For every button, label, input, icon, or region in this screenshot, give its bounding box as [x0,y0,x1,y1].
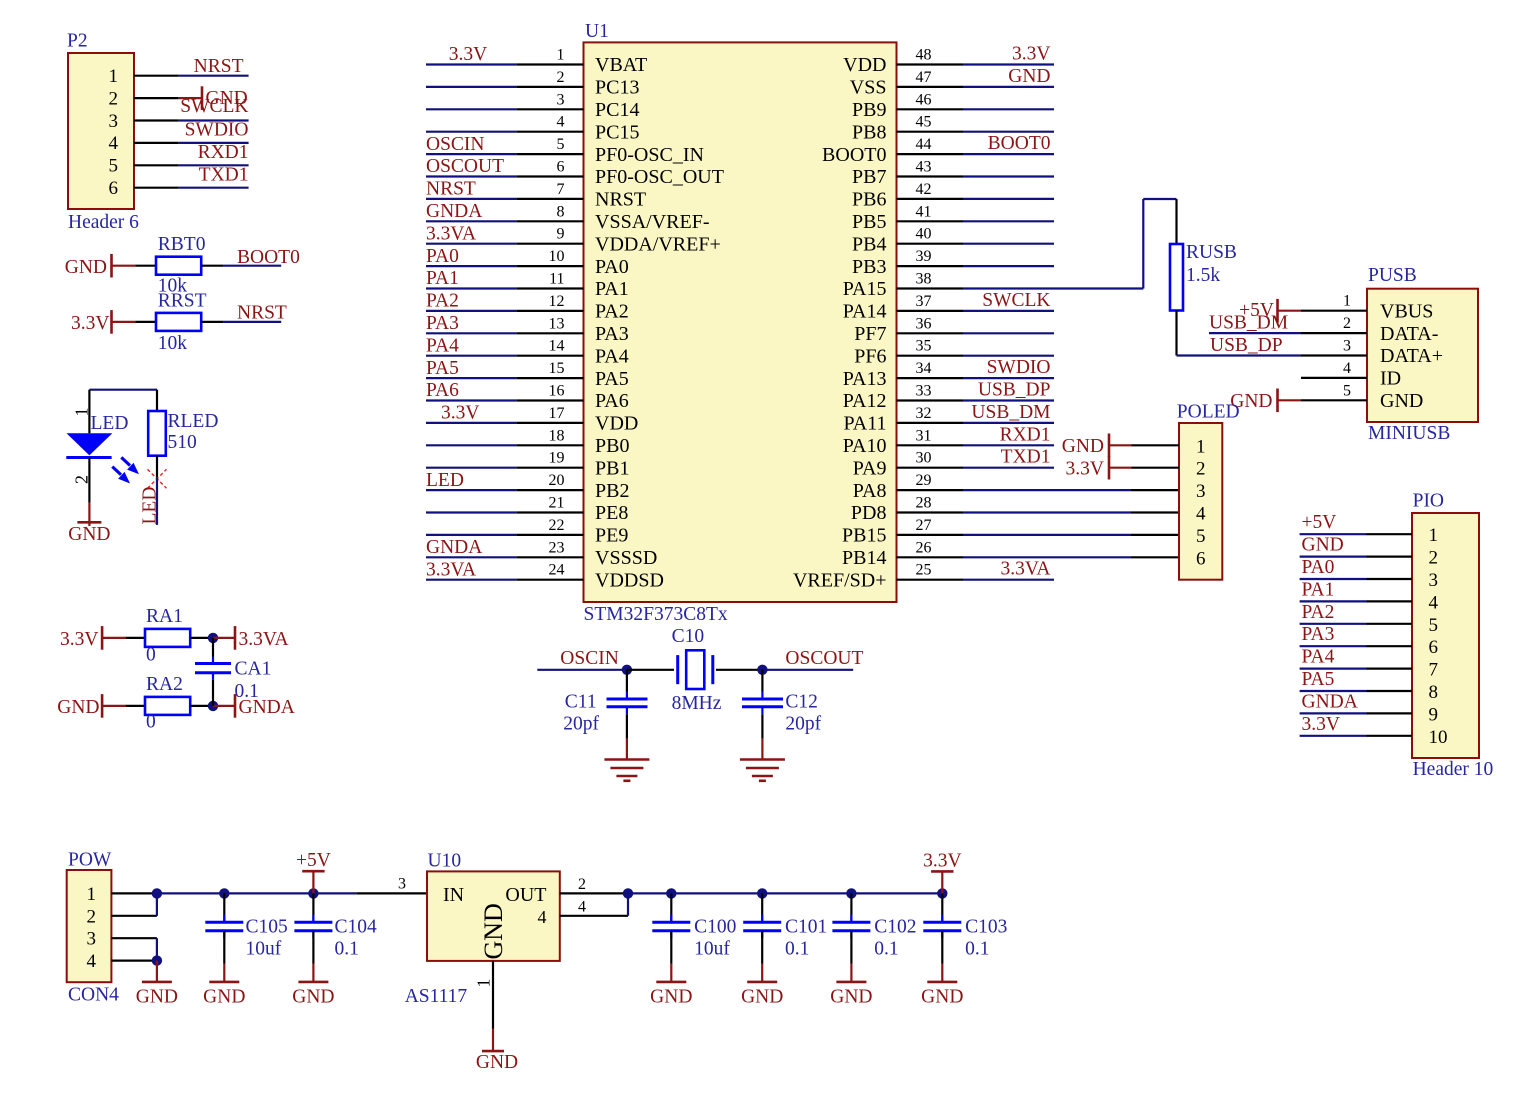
svg-text:PB6: PB6 [852,189,886,211]
svg-text:1.5k: 1.5k [1186,265,1220,286]
wire U1 pin 28 [963,511,1131,513]
svg-text:VBUS: VBUS [1380,300,1433,322]
svg-text:26: 26 [916,539,932,556]
wire U1 pin 2 [426,86,516,88]
wire U1 pin 1 [426,63,516,65]
svg-text:16: 16 [549,383,565,400]
svg-text:37: 37 [916,293,932,310]
svg-text:TXD1: TXD1 [1001,447,1051,468]
wire U1 pin 11 [426,287,516,289]
wire 3.3V rail [628,892,942,894]
svg-text:2: 2 [109,88,119,109]
junction POW +5V rail [152,888,162,898]
svg-text:24: 24 [549,562,565,579]
svg-text:CON4: CON4 [68,985,119,1006]
svg-text:PB5: PB5 [852,211,886,233]
connector P2 (Header 6) [68,53,134,209]
wire PIO pin 9 [1300,712,1367,714]
capacitor C105 10uf [223,893,225,922]
svg-text:PC13: PC13 [595,77,639,99]
wire U1 pin 43 [963,175,1054,177]
svg-text:C11: C11 [565,692,597,713]
ground symbol (C11) [626,739,628,760]
svg-text:PB8: PB8 [852,121,886,143]
svg-text:PD8: PD8 [851,502,887,524]
svg-text:39: 39 [916,248,932,265]
svg-text:PA2: PA2 [595,301,629,323]
svg-text:GND: GND [68,524,110,545]
svg-text:C102: C102 [874,917,916,938]
wire U1 pin 44 [963,153,1054,155]
svg-text:PA14: PA14 [843,301,887,323]
svg-text:PA4: PA4 [595,345,629,367]
svg-text:PA11: PA11 [844,413,887,435]
svg-text:30: 30 [916,450,932,467]
svg-text:VDDSD: VDDSD [595,569,664,591]
wire U1 pin 21 [426,511,516,513]
svg-text:AS1117: AS1117 [405,986,468,1007]
svg-text:ID: ID [1380,368,1401,390]
wire U1 pin 31 [963,444,1054,446]
svg-text:PB3: PB3 [852,256,886,278]
svg-text:3.3V: 3.3V [441,403,479,424]
svg-text:3.3V: 3.3V [923,850,961,871]
svg-text:GNDA: GNDA [1302,691,1358,712]
svg-text:USB_DM: USB_DM [971,402,1050,423]
wire U1 pin 3 [426,108,516,110]
power port GND (C105) [223,964,225,982]
svg-text:1: 1 [1343,293,1351,310]
svg-text:28: 28 [916,495,932,512]
svg-text:0.1: 0.1 [235,681,259,702]
svg-text:PF6: PF6 [854,345,886,367]
power port 3.3V (rail) [941,871,943,893]
power port GND (C104) [312,964,314,982]
crystal C10 8MHz [627,669,674,671]
wire U1 pin 46 [963,108,1054,110]
svg-text:10k: 10k [158,333,188,354]
svg-text:3.3VA: 3.3VA [1000,559,1050,580]
svg-text:10: 10 [549,248,565,265]
wire +5V rail [157,892,356,894]
resistor RUSB 1.5k [1175,199,1177,244]
svg-text:RA2: RA2 [146,674,183,695]
connector PUSB (MINIUSB) [1367,289,1478,422]
svg-text:3: 3 [1343,338,1351,355]
wire U1 pin 9 [426,243,516,245]
wire U1 pin 30 [963,467,1054,469]
svg-text:BOOT0: BOOT0 [988,133,1051,154]
power port 3.3VA [213,637,235,639]
resistor RA1 0 [126,637,145,639]
svg-text:Header 10: Header 10 [1413,759,1494,780]
resistor RRST 10k [135,321,156,323]
svg-text:3: 3 [1196,481,1206,502]
svg-text:6: 6 [1429,637,1439,658]
svg-text:SWCLK: SWCLK [982,290,1050,311]
svg-text:0: 0 [146,645,156,666]
svg-text:Header 6: Header 6 [68,212,139,233]
svg-text:PA9: PA9 [853,457,887,479]
svg-text:GND: GND [65,257,107,278]
svg-text:OSCIN: OSCIN [560,648,619,669]
svg-text:DATA-: DATA- [1380,323,1438,345]
svg-text:2: 2 [557,69,565,86]
svg-text:PA1: PA1 [1302,579,1335,600]
wire LED net [156,478,158,525]
resistor RBT0 10k [135,265,156,267]
svg-text:PA0: PA0 [426,246,459,267]
power port GND (C101) [761,964,763,982]
svg-text:46: 46 [916,91,932,108]
svg-text:4: 4 [1343,360,1351,377]
wire U1 pin 32 [963,422,1054,424]
svg-text:32: 32 [916,405,932,422]
svg-text:4: 4 [87,951,97,972]
wire U1 pin 39 [963,265,1054,267]
ground symbol (C12) [761,739,763,760]
junction POW GND [152,955,162,965]
svg-text:3: 3 [398,875,406,892]
svg-text:14: 14 [549,338,565,355]
svg-text:35: 35 [916,338,932,355]
svg-text:5: 5 [109,156,119,177]
capacitor C104 0.1 [312,893,314,922]
svg-text:GND: GND [206,88,248,109]
svg-text:USB_DP: USB_DP [1210,335,1283,356]
svg-text:3.3V: 3.3V [1302,714,1340,735]
wire POW pin 3 [111,937,156,939]
wire P2 pin 5 [134,164,179,166]
svg-text:2: 2 [1196,459,1206,480]
svg-text:17: 17 [549,405,565,422]
wire PIO pin 3 [1300,578,1367,580]
svg-text:PE8: PE8 [595,502,628,524]
wire U1 pin 26 [963,556,1131,558]
wire U1 pin 5 [426,153,516,155]
power port GND (POW) [156,961,158,982]
wire U1 pin 7 [426,198,516,200]
svg-text:2: 2 [87,906,97,927]
svg-text:48: 48 [916,47,932,64]
svg-text:9: 9 [557,226,565,243]
svg-text:GND: GND [830,986,872,1007]
svg-text:PC14: PC14 [595,99,639,121]
svg-text:11: 11 [549,271,564,288]
svg-text:0.1: 0.1 [335,939,359,960]
wire U1 pin 6 [426,175,516,177]
svg-text:38: 38 [916,271,932,288]
wire U1 pin 4 [426,131,516,133]
svg-text:3.3VA: 3.3VA [239,629,289,650]
svg-text:C103: C103 [965,917,1007,938]
svg-text:PA8: PA8 [853,480,887,502]
wire U1 pin 45 [963,131,1054,133]
svg-text:1: 1 [72,408,92,417]
svg-text:NRST: NRST [426,179,476,200]
svg-text:NRST: NRST [237,302,287,323]
resistor RLED 510 [156,390,158,411]
svg-text:NRST: NRST [595,189,646,211]
svg-text:6: 6 [1196,548,1206,569]
wire PIO pin 4 [1300,600,1367,602]
wire LED top [89,389,157,391]
wire U1 pin 42 [963,198,1054,200]
wire U1 pin 33 [963,399,1054,401]
svg-text:2: 2 [1429,548,1439,569]
svg-text:PB1: PB1 [595,457,629,479]
svg-text:USB_DP: USB_DP [978,380,1051,401]
wire U1 pin 22 [426,534,516,536]
svg-text:PB14: PB14 [842,547,886,569]
svg-text:43: 43 [916,159,932,176]
svg-text:1: 1 [1429,525,1439,546]
wire P2 pin 4 [134,142,179,144]
svg-text:GND: GND [479,903,508,959]
wire U1 pin 41 [963,220,1054,222]
svg-text:PA4: PA4 [1302,647,1335,668]
svg-text:PE9: PE9 [595,525,628,547]
wire U1 pin 15 [426,377,516,379]
svg-text:2: 2 [578,876,586,893]
svg-text:GND: GND [1008,66,1050,87]
wire U1 pin 14 [426,355,516,357]
svg-text:U1: U1 [585,21,609,42]
wire PIO pin 2 [1300,555,1367,557]
wire U1 pin 48 [963,63,1054,65]
wire U1 pin 17 [426,422,516,424]
svg-text:4: 4 [578,898,586,915]
svg-text:BOOT0: BOOT0 [237,247,300,268]
capacitor CA1 0.1 [212,638,214,657]
svg-text:PA5: PA5 [595,368,629,390]
svg-text:PA3: PA3 [595,323,629,345]
svg-text:LED: LED [140,487,161,525]
capacitor C100 10uf [670,893,672,922]
capacitor C102 0.1 [850,893,852,922]
svg-text:0: 0 [146,712,156,733]
capacitor C11 20pf [626,670,628,692]
power port GND (U10) [492,1029,494,1052]
svg-text:15: 15 [549,360,565,377]
junction node 3.3VA [208,633,218,643]
svg-text:PA13: PA13 [843,368,887,390]
svg-text:5: 5 [1429,615,1439,636]
wire POW pin 2 [111,915,156,917]
svg-text:OSCIN: OSCIN [426,134,485,155]
svg-text:VSSA/VREF-: VSSA/VREF- [595,211,709,233]
wire POW pin 1 [111,892,156,894]
svg-text:PB7: PB7 [852,166,886,188]
svg-text:VBAT: VBAT [595,54,647,76]
junction U10 output [623,888,633,898]
svg-text:510: 510 [168,432,197,453]
svg-text:PA12: PA12 [843,390,887,412]
svg-text:OSCOUT: OSCOUT [785,648,863,669]
svg-text:1: 1 [474,979,494,988]
svg-text:VSS: VSS [850,77,887,99]
svg-text:10uf: 10uf [694,939,730,960]
svg-text:GND: GND [741,986,783,1007]
svg-text:NRST: NRST [194,56,244,77]
wire OSCIN [537,669,627,671]
svg-text:3: 3 [109,111,119,132]
wire U1 pin 25 [963,579,1054,581]
svg-text:GND: GND [921,986,963,1007]
svg-text:3.3V: 3.3V [1066,458,1104,479]
junction OSCOUT node [757,665,767,675]
svg-text:BOOT0: BOOT0 [822,144,886,166]
connector POW (CON4) [67,870,112,982]
svg-text:PA10: PA10 [843,435,887,457]
svg-text:VDD: VDD [843,54,886,76]
svg-text:C100: C100 [694,917,736,938]
svg-text:31: 31 [916,427,932,444]
svg-text:C104: C104 [335,917,378,938]
svg-text:3.3V: 3.3V [1012,44,1050,65]
wire U1 pin 19 [426,467,516,469]
svg-text:GNDA: GNDA [426,537,482,558]
svg-text:PA0: PA0 [1302,557,1335,578]
svg-text:4: 4 [109,133,119,154]
svg-text:POW: POW [68,850,112,871]
svg-text:PA2: PA2 [1302,602,1335,623]
regulator U10 AS1117 [427,871,560,961]
wire U1 pin 24 [426,579,516,581]
wire USB_DM [1209,332,1301,334]
svg-text:GND: GND [203,986,245,1007]
svg-text:1: 1 [557,47,565,64]
svg-text:PC15: PC15 [595,121,639,143]
junction OSCIN node [622,665,632,675]
svg-text:C105: C105 [246,917,288,938]
power port GND (C100) [670,964,672,982]
wire PA15 to RUSB [963,287,1143,289]
svg-text:GND: GND [292,986,334,1007]
junction C102 [846,888,856,898]
wire U1 pin 16 [426,399,516,401]
svg-text:PA5: PA5 [1302,669,1335,690]
wire U1 pin 37 [963,310,1054,312]
svg-text:3.3V: 3.3V [71,313,109,334]
wire U1 pin 47 [963,86,1054,88]
no-ERC marker [148,469,167,488]
svg-text:3: 3 [1429,570,1439,591]
resistor RA2 0 [126,705,145,707]
svg-text:SWDIO: SWDIO [185,119,249,140]
svg-text:8: 8 [557,203,565,220]
power port GND (P2 pin 2) [179,97,202,99]
svg-text:C10: C10 [672,626,705,647]
svg-text:LED: LED [91,413,129,434]
svg-text:RBT0: RBT0 [158,234,206,255]
svg-text:PA5: PA5 [426,358,459,379]
svg-text:LED: LED [426,470,464,491]
svg-text:2: 2 [1343,315,1351,332]
wire P2 pin 1 [134,75,179,77]
svg-text:VREF/SD+: VREF/SD+ [793,569,887,591]
wire U1 pin 36 [963,332,1054,334]
svg-text:PB2: PB2 [595,480,629,502]
svg-text:RXD1: RXD1 [1000,424,1051,445]
svg-text:GND: GND [136,986,178,1007]
wire U1 pin 40 [963,243,1054,245]
svg-text:PF0-OSC_IN: PF0-OSC_IN [595,144,704,166]
svg-text:0.1: 0.1 [874,939,898,960]
svg-text:34: 34 [916,360,932,377]
wire U1 pin 8 [426,220,516,222]
wire U1 pin 20 [426,489,516,491]
svg-text:OSCOUT: OSCOUT [426,156,504,177]
IC U1 STM32F373C8Tx [584,42,897,602]
svg-text:3.3V: 3.3V [60,629,98,650]
svg-text:4: 4 [538,907,547,927]
svg-text:RXD1: RXD1 [198,142,249,163]
connector POLED [1179,423,1222,580]
svg-text:12: 12 [549,293,565,310]
svg-text:3: 3 [87,929,97,950]
svg-text:C101: C101 [785,917,827,938]
svg-text:3.3VA: 3.3VA [426,223,476,244]
svg-text:22: 22 [549,517,565,534]
svg-text:VDDA/VREF+: VDDA/VREF+ [595,233,721,255]
svg-text:2: 2 [72,475,92,484]
junction C105 [219,888,229,898]
svg-text:PA3: PA3 [1302,624,1335,645]
svg-text:GND: GND [1062,436,1104,457]
svg-text:PA6: PA6 [426,380,459,401]
wire PIO pin 5 [1300,623,1367,625]
wire POW pin 4 [111,959,156,961]
svg-text:C12: C12 [785,692,818,713]
svg-text:STM32F373C8Tx: STM32F373C8Tx [584,604,728,625]
svg-text:33: 33 [916,383,932,400]
svg-text:4: 4 [1429,592,1439,613]
svg-text:GND: GND [650,986,692,1007]
wire P2 pin 2 [134,97,179,99]
svg-text:P2: P2 [67,31,88,52]
svg-text:PA1: PA1 [426,268,459,289]
svg-text:PA6: PA6 [595,390,629,412]
svg-text:0.1: 0.1 [965,939,989,960]
svg-text:U10: U10 [428,850,462,871]
svg-text:3.3V: 3.3V [449,44,487,65]
svg-text:PB9: PB9 [852,99,886,121]
svg-text:20pf: 20pf [785,714,821,735]
svg-text:PUSB: PUSB [1368,265,1417,286]
svg-text:1: 1 [1196,436,1206,457]
svg-text:OUT: OUT [505,884,546,906]
capacitor C12 20pf [761,670,763,692]
svg-text:23: 23 [549,539,565,556]
capacitor C103 0.1 [941,893,943,922]
svg-text:20pf: 20pf [563,714,599,735]
svg-text:RA1: RA1 [146,606,183,627]
wire BOOT0 [223,265,281,267]
wire OSCOUT [762,669,853,671]
svg-text:SWDIO: SWDIO [987,357,1051,378]
svg-text:IN: IN [443,884,464,906]
svg-text:27: 27 [916,517,932,534]
svg-text:RLED: RLED [168,411,219,432]
wire PIO pin 6 [1300,645,1367,647]
wire PIO pin 10 [1300,735,1367,737]
svg-text:44: 44 [916,136,932,153]
wire PIO pin 1 [1300,533,1367,535]
LED light arrows [112,457,138,482]
svg-text:5: 5 [1196,526,1206,547]
wire USB_DP [1177,354,1302,356]
